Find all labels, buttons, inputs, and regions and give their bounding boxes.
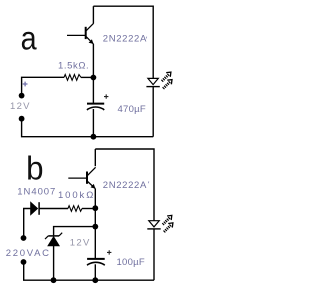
wire diode to resistor (b) (39, 208, 68, 210)
node 220VAC lower terminal (21, 259, 27, 265)
wire top rail to LED anode (b) (95, 149, 154, 221)
node zener branch junction (b) (92, 224, 98, 230)
svg-text:2N2222A: 2N2222A (103, 34, 147, 45)
diode D1 1N4007 (31, 202, 39, 215)
svg-text:2N2222A: 2N2222A (103, 180, 147, 191)
wire LED cathode to bottom rail (b) (153, 229, 155, 280)
wire 220VAC- down and bottom rail (b) (24, 262, 154, 280)
wire emitter node to zener node (b) (94, 208, 96, 226)
svg-text:100kΩ: 100kΩ (58, 190, 95, 201)
wire node to capacitor (a) (92, 78, 94, 104)
transistor Q1 (67, 23, 94, 44)
svg-text:12V: 12V (10, 101, 31, 112)
svg-text:1N4007: 1N4007 (17, 186, 56, 197)
wire collector vertical (a) (92, 6, 94, 23)
resistor R1 zigzag (64, 75, 81, 81)
wire resistor to node (b) (82, 208, 95, 210)
wire capacitor to bottom rail (b) (94, 264, 96, 280)
wire emitter vertical (a) (92, 44, 94, 78)
capacitor C2 (87, 259, 105, 265)
capacitor C1 polarity plus (104, 94, 108, 98)
wire zener to bottom rail (b) (53, 246, 55, 280)
LED D3 light arrows (b) (163, 215, 173, 232)
capacitor C1 (87, 104, 104, 110)
wire capacitor to bottom rail (a) (92, 109, 94, 137)
wire resistor to node (a) (81, 76, 93, 78)
svg-text:b: b (26, 150, 43, 187)
svg-text:a: a (21, 20, 38, 57)
resistor R2 zigzag (b) (68, 206, 82, 212)
wire 12V- down and bottom rail (a) (22, 119, 154, 137)
svg-text:220VAC: 220VAC (6, 248, 51, 259)
wire emitter vertical (b) (94, 189, 96, 209)
node 12V positive terminal (19, 93, 25, 99)
capacitor C2 polarity plus (107, 250, 111, 254)
node 12V negative terminal (19, 116, 25, 122)
wire zener branch left (b) (54, 227, 96, 236)
wire collector vertical (b) (94, 149, 96, 166)
wire top rail to LED anode (a) (93, 6, 153, 78)
wire zener node to capacitor (b) (94, 227, 96, 259)
node resistor/emitter/capacitor junction (a) (91, 75, 97, 81)
LED D2 light arrows (a) (162, 72, 172, 89)
svg-text:1.5kΩ.: 1.5kΩ. (58, 61, 89, 72)
node capacitor bottom (b) (92, 277, 98, 283)
wire LED cathode to bottom rail (a) (152, 87, 154, 137)
node resistor/emitter junction (b) (92, 205, 98, 211)
LED D3 (b) (147, 221, 160, 229)
svg-text:12V: 12V (70, 237, 91, 248)
transistor Q2 (68, 167, 95, 188)
node capacitor bottom (a) (91, 134, 97, 140)
node zener bottom (b) (51, 277, 57, 283)
zener diode D4 12V (45, 233, 62, 246)
svg-text:470µF: 470µF (118, 104, 146, 115)
plus sign 12V polarity (23, 82, 28, 87)
svg-text:100µF: 100µF (117, 257, 145, 268)
LED D2 (a) (146, 78, 159, 86)
wire 220VAC+ up to diode (b) (24, 209, 31, 239)
wire 12V+ terminal up and right to resistor (22, 77, 64, 95)
node 220VAC upper terminal (21, 235, 27, 241)
